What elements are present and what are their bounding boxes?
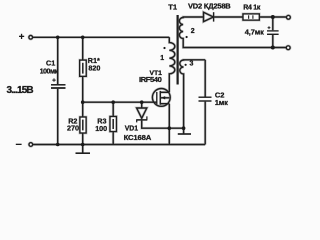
svg-text:3: 3 — [190, 60, 194, 67]
svg-text:3...15В: 3...15В — [7, 85, 34, 96]
svg-text:270: 270 — [67, 124, 79, 133]
svg-text:VD1: VD1 — [125, 125, 139, 132]
svg-text:100мк: 100мк — [40, 69, 59, 76]
svg-text:R4 1к: R4 1к — [243, 4, 261, 11]
svg-text:1: 1 — [160, 55, 164, 62]
svg-text:4,7мк: 4,7мк — [245, 27, 264, 36]
svg-text:Т1: Т1 — [168, 3, 178, 12]
svg-text:IRF540: IRF540 — [139, 75, 162, 84]
svg-text:VD2 КД258В: VD2 КД258В — [188, 2, 231, 11]
svg-text:100: 100 — [95, 124, 107, 133]
svg-text:1мк: 1мк — [215, 98, 228, 107]
svg-text:С1: С1 — [46, 59, 55, 68]
svg-text:КС168А: КС168А — [124, 133, 152, 142]
svg-text:820: 820 — [88, 63, 100, 72]
svg-text:2: 2 — [191, 28, 195, 35]
